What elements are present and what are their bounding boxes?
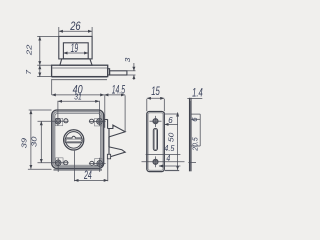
key slot bar with nub xyxy=(65,136,82,142)
dim 14.5 line xyxy=(104,94,125,96)
plate rim inner line xyxy=(55,113,101,165)
latch wedge 1 xyxy=(108,125,126,137)
dim 6 extension line xyxy=(163,112,165,125)
svg-text:24: 24 xyxy=(83,168,91,182)
svg-text:39: 39 xyxy=(20,137,29,148)
dim 3 extension lines xyxy=(127,70,135,72)
dim 22 line xyxy=(39,36,41,65)
plate rim (grey band) xyxy=(53,112,102,167)
strike hole top xyxy=(153,119,158,124)
screw hole BR big xyxy=(97,161,103,167)
key cylinder outer circle xyxy=(64,130,84,150)
chamfer trapezoid xyxy=(60,59,92,65)
svg-text:50: 50 xyxy=(166,132,175,142)
screw hole BL square pad xyxy=(56,158,63,165)
dim 26 extension lines xyxy=(58,27,60,36)
strike slot xyxy=(153,128,157,150)
svg-text:20.5: 20.5 xyxy=(191,137,200,152)
dim 1.4 line xyxy=(187,98,202,100)
strike hole bottom xyxy=(153,159,158,164)
screw hole BL small xyxy=(64,161,68,165)
side strip grey body xyxy=(189,101,191,171)
bolt xyxy=(110,71,127,75)
svg-text:4.5: 4.5 xyxy=(164,143,174,153)
side strip edges xyxy=(189,98,191,172)
dim 24 line xyxy=(74,179,107,181)
svg-text:26: 26 xyxy=(69,19,80,33)
strike hole top crosshairs xyxy=(150,120,162,122)
screw hole BL big xyxy=(55,160,61,166)
latch wedge 2 xyxy=(109,147,125,157)
base plate bottom shadow xyxy=(52,77,107,79)
BL crosshairs xyxy=(38,162,69,164)
base plate face line xyxy=(52,67,107,69)
dim 39 extension lines xyxy=(29,109,52,111)
svg-text:14.5: 14.5 xyxy=(112,82,126,96)
svg-text:19: 19 xyxy=(71,41,79,55)
dim 6 line xyxy=(164,123,178,125)
dim 40 extension lines xyxy=(51,79,53,95)
dim 50 extension lines xyxy=(165,113,179,115)
side tick 1 xyxy=(191,113,200,115)
dim 26 line xyxy=(59,30,92,32)
plate bottom shadow xyxy=(54,169,103,171)
dim 24 extension lines xyxy=(73,151,75,182)
strike slot inner xyxy=(154,129,156,149)
dim 30 line xyxy=(40,121,42,163)
dim 31 line xyxy=(58,100,99,102)
dim 4 line xyxy=(159,165,181,167)
dim 50 line xyxy=(177,112,179,169)
TL crosshairs xyxy=(38,120,69,122)
dim 39 line xyxy=(30,110,32,169)
svg-text:15: 15 xyxy=(151,84,160,98)
svg-text:4: 4 xyxy=(166,153,170,163)
base plate lower flange line xyxy=(52,79,107,81)
base plate xyxy=(52,65,108,76)
latch gap edge xyxy=(108,137,110,147)
latch step xyxy=(107,154,110,159)
dim 15 extension lines xyxy=(146,99,148,111)
plate outer edge xyxy=(52,110,104,168)
svg-text:6: 6 xyxy=(168,115,173,125)
dim 3 lines (arrows outside) xyxy=(133,63,135,71)
BR crosshairs xyxy=(89,162,106,164)
screw hole TR square pad xyxy=(94,119,101,126)
strike plate outline xyxy=(147,112,165,172)
screw hole BR small xyxy=(90,161,94,165)
side tick 4 xyxy=(188,162,196,164)
svg-text:31: 31 xyxy=(74,92,82,102)
screw hole TL square pad xyxy=(55,118,62,125)
dim 22/7 extension lines xyxy=(37,35,58,37)
strike plate rim xyxy=(148,113,163,171)
side tick 2 xyxy=(191,118,200,120)
dim 7 line xyxy=(39,65,41,76)
side tick 3 xyxy=(191,145,200,147)
screw hole TL small xyxy=(64,119,68,123)
cylinder housing inner rect xyxy=(63,43,88,59)
svg-text:30: 30 xyxy=(30,136,39,147)
svg-text:1.4: 1.4 xyxy=(192,85,203,99)
screw hole BR square pad xyxy=(95,158,102,165)
latch housing edge xyxy=(107,119,109,128)
dim 40 line xyxy=(52,94,105,96)
dim 19 line xyxy=(63,52,88,54)
screw hole TL big xyxy=(55,118,61,124)
bolt tab xyxy=(108,69,110,75)
svg-text:22: 22 xyxy=(25,44,34,57)
dim 15 line xyxy=(147,97,165,99)
TR crosshairs xyxy=(89,120,106,122)
dim 4.5 line xyxy=(146,154,181,156)
screw hole TR small xyxy=(90,119,94,123)
key slot inner line xyxy=(66,139,81,142)
lock body outer rect xyxy=(59,36,92,59)
side ladder vertical xyxy=(199,114,201,146)
strike hole bottom crosshairs xyxy=(142,161,185,163)
housing top tick xyxy=(104,119,108,121)
screw hole TR big xyxy=(97,119,103,125)
key cylinder inner circle xyxy=(65,132,82,149)
